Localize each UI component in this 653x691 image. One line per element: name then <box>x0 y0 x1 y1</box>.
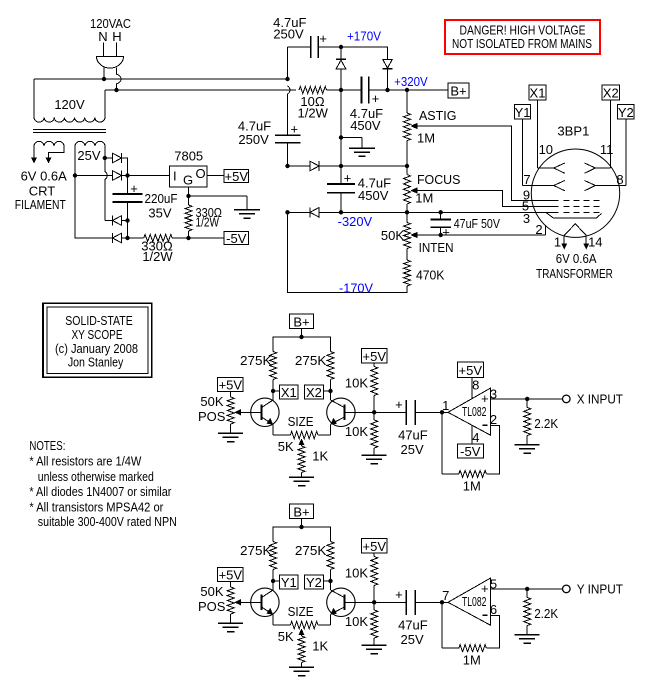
svg-text:2.2K: 2.2K <box>534 606 558 621</box>
resistor 330ohm 1/2W horizontal <box>144 235 173 242</box>
capacitor 47uF 25V (Y amp) <box>406 590 415 615</box>
svg-text:275K: 275K <box>295 353 327 368</box>
label POS <box>198 409 226 424</box>
label + (47uF) <box>395 587 403 602</box>
potentiometer FOCUS 1M <box>404 166 411 212</box>
label pin 10 <box>539 142 553 157</box>
label Y INPUT <box>577 582 623 597</box>
resistor 1M feedback (Y amp) <box>459 645 487 652</box>
wire collector supply rail <box>273 337 330 352</box>
terminal box Y2 (CRT) <box>618 105 634 120</box>
svg-text:X2: X2 <box>306 385 322 400</box>
svg-text:1/2W: 1/2W <box>196 215 220 230</box>
terminal box B+ (supply) <box>448 83 469 99</box>
svg-text:SIZE: SIZE <box>288 604 314 619</box>
svg-text:450V: 450V <box>350 118 381 133</box>
terminal box Y2 <box>305 575 324 590</box>
label pin 1 <box>442 398 449 413</box>
svg-text:INTEN: INTEN <box>419 240 454 255</box>
svg-text:B+: B+ <box>293 314 309 329</box>
svg-text:1/2W: 1/2W <box>298 106 329 121</box>
wire X2 to plate pin11 <box>595 100 610 168</box>
potentiometer 50K POS (Y amp) <box>227 581 234 623</box>
label 2.2K <box>534 606 558 621</box>
wire op-amp output <box>490 588 562 590</box>
svg-text:+: + <box>130 181 138 196</box>
wire filament lead left with arrow <box>31 146 37 164</box>
wire stub to Y1 box <box>273 580 279 582</box>
label 5K <box>278 629 294 644</box>
svg-text:N: N <box>98 29 107 44</box>
label pin 6 <box>490 602 497 617</box>
wire divider to coupling cap <box>374 601 406 603</box>
wire 330 to -5V <box>172 237 224 239</box>
ground (1K) <box>289 667 314 676</box>
svg-text:10K: 10K <box>345 614 368 629</box>
svg-text:275K: 275K <box>240 543 272 558</box>
node 7805 ground junction <box>186 194 190 198</box>
Y deflection plate left <box>554 181 565 191</box>
label pin 7 <box>523 172 530 187</box>
svg-text:120VAC: 120VAC <box>90 16 131 31</box>
label FOCUS <box>417 172 461 187</box>
terminal box +5V (op-amp) <box>457 362 483 378</box>
label 50K (INTEN) <box>381 228 404 243</box>
svg-text:Jon Stanley: Jon Stanley <box>68 354 124 369</box>
svg-text:I: I <box>173 168 177 183</box>
label 275K right <box>295 543 327 558</box>
wire plug-H with hop over AC1 <box>117 67 122 90</box>
wire stub from Y2 box <box>323 580 330 582</box>
svg-text:1: 1 <box>442 398 449 413</box>
label -170V <box>339 280 373 295</box>
label 50K (POS) <box>200 394 223 409</box>
diode D7 <box>310 161 319 171</box>
label 6V 0.6A (heater) <box>556 251 597 266</box>
label + (47uF) <box>395 397 403 412</box>
resistor 470K <box>404 249 411 287</box>
label 470K <box>416 267 445 282</box>
resistor 10K lower (Y amp) <box>371 602 378 645</box>
wire D2 cathode to 7805 input <box>122 175 170 177</box>
label + (C3) <box>372 91 380 106</box>
resistor 275K right (Y amp) <box>327 542 334 582</box>
resistor 10K upper (X amp) <box>371 363 378 413</box>
svg-text:10: 10 <box>539 142 553 157</box>
svg-text:-5V: -5V <box>226 231 247 246</box>
wire emitters to SIZE pot <box>273 434 330 436</box>
diode D2 <box>113 171 122 181</box>
ground (2.2K) <box>515 445 540 454</box>
label 3BP1 <box>557 123 589 138</box>
svg-text:25V: 25V <box>77 148 100 163</box>
label 275K left <box>240 543 272 558</box>
node op-amp input junction <box>440 600 444 604</box>
ground (10K divider) <box>362 645 387 654</box>
wire node to FOCUS top <box>341 164 409 168</box>
svg-text:SOLID-STATE: SOLID-STATE <box>65 313 133 328</box>
label X INPUT <box>577 392 623 407</box>
node 25V right junction <box>103 156 107 160</box>
ground (HV filter) <box>349 148 375 156</box>
label +170V <box>347 28 381 43</box>
label 5K <box>278 439 294 454</box>
wire 7805 output to +5V <box>207 175 224 177</box>
svg-text:35V: 35V <box>148 206 171 221</box>
label 4.7uF (C3) <box>350 106 383 121</box>
label + input <box>481 391 489 406</box>
capacitor 47uF 50V <box>430 212 451 235</box>
svg-text:+: + <box>319 31 327 46</box>
node AC1 junction <box>102 77 106 81</box>
label 50K (POS) <box>200 584 223 599</box>
svg-text:B+: B+ <box>450 84 466 99</box>
label 25V <box>77 148 100 163</box>
svg-text:3BP1: 3BP1 <box>557 123 589 138</box>
label H <box>112 29 121 44</box>
label 4.7uF (C4) <box>358 176 391 191</box>
label 47uF <box>398 617 428 632</box>
svg-text:2.2K: 2.2K <box>534 416 558 431</box>
wire D1 cathode to raw DC node <box>122 158 128 176</box>
resistor 10ohm 1/2W <box>299 87 326 94</box>
label 10K lower <box>345 424 368 439</box>
terminal box +5V (POS X) <box>218 378 244 393</box>
terminal box B+ (X amp) <box>290 314 314 329</box>
svg-text:1: 1 <box>554 235 561 250</box>
label 330ohm horiz <box>141 239 173 254</box>
wire Y1 to plate pin7 <box>523 119 554 185</box>
svg-text:SIZE: SIZE <box>288 414 314 429</box>
wire 25V winding right lead down <box>104 146 106 172</box>
regulator U2 7805 box <box>169 166 207 187</box>
svg-text:+: + <box>395 587 403 602</box>
node output junction <box>525 587 529 591</box>
terminal box X1 <box>279 385 298 400</box>
label pin 2 <box>535 222 542 237</box>
label pin 8 <box>616 172 623 187</box>
svg-text:+170V: +170V <box>347 28 381 43</box>
svg-text:10K: 10K <box>345 566 368 581</box>
svg-text:X1: X1 <box>281 385 297 400</box>
node collector X1 junction <box>271 389 275 393</box>
node B+ rail junction <box>299 525 303 529</box>
svg-text:-320V: -320V <box>338 214 373 229</box>
svg-text:4: 4 <box>472 430 479 445</box>
transistor Q right (Y amp) <box>327 581 355 625</box>
label 47uF 50V <box>454 216 501 231</box>
CRT cathode heater <box>564 224 586 236</box>
svg-text:50K: 50K <box>381 228 404 243</box>
label pin 9 <box>523 187 530 202</box>
resistor 1M feedback (X amp) <box>459 470 487 477</box>
node 47uF bottom junction <box>439 233 443 237</box>
wire to ground (HV) <box>341 138 362 149</box>
wire divider to coupling cap <box>374 411 406 413</box>
transistor Q right (X amp) <box>327 391 355 435</box>
SIZE wiper arrow <box>298 439 304 446</box>
wire Q2 base <box>344 411 374 413</box>
transformer T1 6V filament winding <box>34 141 64 146</box>
resistor 10K upper (Y amp) <box>371 553 378 603</box>
svg-text:+5V: +5V <box>219 378 243 393</box>
svg-text:Y1: Y1 <box>281 575 297 590</box>
label 330ohm vert <box>196 205 223 220</box>
svg-text:50K: 50K <box>200 394 223 409</box>
diode D8 <box>310 207 319 217</box>
svg-text:7: 7 <box>442 588 449 603</box>
node raw -DC junction <box>125 236 129 240</box>
wire AC1 up to C1 <box>288 47 311 79</box>
ground (1K) <box>289 477 314 486</box>
label + (C4) <box>344 171 352 186</box>
wire +320 down to ASTIG pot <box>406 90 408 113</box>
svg-text:50K: 50K <box>200 584 223 599</box>
svg-text:1/2W: 1/2W <box>142 249 173 264</box>
node op-amp input junction <box>440 410 444 414</box>
node ground takeoff junction <box>339 135 343 139</box>
wire 25V winding left lead down <box>74 146 76 176</box>
capacitor C4 4.7uF 450V <box>327 166 355 212</box>
label INTEN <box>419 240 454 255</box>
svg-text:FOCUS: FOCUS <box>417 172 461 187</box>
label POS <box>198 599 226 614</box>
label SIZE <box>288 604 314 619</box>
mains plug <box>97 43 124 69</box>
node -320/INTEN junction <box>405 210 409 214</box>
wire -320 rail left segment <box>288 211 311 213</box>
resistor 330ohm 1/2W vertical <box>185 196 192 238</box>
label 120V <box>54 97 85 112</box>
label 6V 0.6A <box>21 169 68 184</box>
node Q base / divider junction <box>372 600 376 604</box>
label -320V <box>338 214 373 229</box>
wire stub to X1 box <box>273 390 279 392</box>
svg-text:-170V: -170V <box>339 280 373 295</box>
svg-text:14: 14 <box>588 235 602 250</box>
svg-text:1M: 1M <box>415 191 433 206</box>
svg-text:POS: POS <box>198 599 226 614</box>
op-amp U1 TL082 (Y half) <box>448 578 490 625</box>
wire op-amp pin 4 to -5V <box>471 425 473 444</box>
wire POS wiper to Q base <box>234 409 261 415</box>
svg-text:TL082: TL082 <box>462 404 487 419</box>
svg-text:25V: 25V <box>401 632 424 647</box>
danger warning box <box>445 20 600 54</box>
svg-text:+5V: +5V <box>219 568 243 583</box>
label pin 4 <box>472 430 479 445</box>
wire cap to op-amp input <box>415 601 448 603</box>
svg-text:unless otherwise marked: unless otherwise marked <box>38 469 154 484</box>
resistor 2.2K (X amp) <box>524 399 531 445</box>
node AC1-C1 junction <box>285 77 289 81</box>
label 10ohm <box>300 94 324 109</box>
svg-text:XY SCOPE: XY SCOPE <box>72 327 123 342</box>
node AC2 junction <box>114 88 118 92</box>
potentiometer SIZE 5K (Y amp) <box>290 622 318 629</box>
ground (10K divider) <box>362 455 387 464</box>
wire FOCUS wiper to CRT pin5 <box>411 187 559 206</box>
svg-text:POS: POS <box>198 409 226 424</box>
svg-text:+: + <box>442 225 450 240</box>
label pin 8 <box>472 378 479 393</box>
label 47uF <box>398 427 428 442</box>
label 25V <box>401 442 424 457</box>
label 10K upper <box>345 376 368 391</box>
label N <box>98 29 107 44</box>
label + input <box>481 581 489 596</box>
wire heater pin 14 with arrow <box>583 236 589 250</box>
diode D3 <box>113 216 122 226</box>
label 4.7uF (C1) <box>273 15 306 30</box>
diode D5 <box>336 47 346 90</box>
terminal box X2 (CRT) <box>602 85 619 101</box>
label + (C1) <box>319 31 327 46</box>
label 250V (C2) <box>238 132 269 147</box>
wire AC rail 2 (hot) left <box>105 90 296 118</box>
svg-text:450V: 450V <box>358 188 389 203</box>
SIZE wiper arrow <box>298 629 304 636</box>
svg-text:X2: X2 <box>603 86 619 101</box>
transistor Q left (X amp) <box>251 391 279 435</box>
label 450V (C3) <box>350 118 381 133</box>
label 1/2W vert <box>196 215 220 230</box>
svg-text:X INPUT: X INPUT <box>577 392 623 407</box>
wire B+ stub <box>301 328 303 337</box>
CRT V1 envelope <box>531 149 619 237</box>
svg-text:* All diodes 1N4007 or similar: * All diodes 1N4007 or similar <box>29 484 172 499</box>
wire POS wiper to Q base <box>234 599 261 605</box>
svg-text:10K: 10K <box>345 376 368 391</box>
label + (47uF50V) <box>442 225 450 240</box>
wire D4 to resistor 330 <box>122 237 144 239</box>
node C4 bottom junction <box>339 210 343 214</box>
node -320 junction A <box>285 210 289 214</box>
label 1/2W horiz <box>142 249 173 264</box>
svg-text:275K: 275K <box>295 543 327 558</box>
label +320V <box>394 74 428 89</box>
terminal box +5V (POS Y) <box>218 568 244 583</box>
CRT grid electrode dashes <box>564 200 600 212</box>
node -5V junction <box>186 236 190 240</box>
svg-text:+320V: +320V <box>394 74 428 89</box>
label + (220uF) <box>130 181 138 196</box>
label 7805 <box>174 148 203 163</box>
label + (C2) <box>291 121 299 136</box>
wire emitters to SIZE pot <box>273 624 330 626</box>
wire D8 to C4 bottom <box>319 211 341 213</box>
wire 25V left to D4 <box>75 176 113 239</box>
label 120VAC <box>90 16 131 31</box>
terminal box X2 <box>305 385 324 400</box>
label pin 3 <box>490 387 497 402</box>
label - input <box>482 424 487 426</box>
wire collector supply rail <box>273 527 330 542</box>
label pin 5 <box>522 199 529 214</box>
wire op-amp pin 8 to +5V <box>471 378 473 399</box>
label TRANSFORMER <box>536 266 613 281</box>
wire cap to op-amp input <box>415 411 448 413</box>
svg-text:470K: 470K <box>416 267 445 282</box>
svg-text:+: + <box>395 397 403 412</box>
svg-text:suitable 300-400V rated NPN: suitable 300-400V rated NPN <box>38 514 177 529</box>
transformer T1 primary winding <box>34 118 105 123</box>
svg-text:Y INPUT: Y INPUT <box>577 582 623 597</box>
node 47uF-50V top junction <box>439 210 443 214</box>
svg-text:2: 2 <box>535 222 542 237</box>
wire heater pin 1 with arrow <box>561 236 567 250</box>
capacitor C2 4.7uF 250V <box>275 94 301 166</box>
node Q base / divider junction <box>372 410 376 414</box>
svg-text:1M: 1M <box>463 653 481 668</box>
label 275K right <box>295 353 327 368</box>
svg-text:TRANSFORMER: TRANSFORMER <box>536 266 613 281</box>
node D3 junction <box>125 218 129 222</box>
resistor 2.2K (Y amp) <box>524 589 531 635</box>
label pin 5 <box>490 577 497 592</box>
ground (2.2K) <box>515 635 540 644</box>
transformer T1 25V winding <box>75 141 105 146</box>
wire feedback loop <box>442 602 499 648</box>
label 250V (C1) <box>273 27 304 42</box>
svg-text:+: + <box>344 171 352 186</box>
wire 25V lead to D3 <box>105 220 113 222</box>
capacitor 47uF 25V (X amp) <box>406 400 415 425</box>
ground (POS pot) <box>218 433 243 442</box>
svg-text:7805: 7805 <box>174 148 203 163</box>
svg-text:8: 8 <box>472 378 479 393</box>
vertical wire node B down <box>340 90 342 166</box>
wire C3 to +320 node <box>369 89 388 91</box>
node +320V junction 2 <box>405 88 409 92</box>
svg-text:5K: 5K <box>278 629 294 644</box>
svg-text:6V 0.6A: 6V 0.6A <box>21 169 68 184</box>
wire 7805 ground pin <box>188 187 190 196</box>
svg-text:47uF: 47uF <box>398 617 428 632</box>
svg-text:250V: 250V <box>238 132 269 147</box>
label ASTIG <box>419 108 457 123</box>
label SIZE <box>288 414 314 429</box>
label 4.7uF (C2) <box>238 119 271 134</box>
svg-text:NOT ISOLATED FROM MAINS: NOT ISOLATED FROM MAINS <box>452 36 592 51</box>
Y deflection plate right <box>585 181 596 191</box>
svg-text:8: 8 <box>616 172 623 187</box>
wire Y2 to plate pin8 <box>595 119 625 185</box>
node collector X2 junction <box>328 389 332 393</box>
resistor 10K lower (X amp) <box>371 412 378 455</box>
diode D1 <box>113 153 122 163</box>
title box <box>43 303 152 377</box>
label 2.2K <box>534 416 558 431</box>
terminal box -5V (op-amp) <box>457 444 483 459</box>
svg-text:* All transistors MPSA42 or: * All transistors MPSA42 or <box>29 499 164 514</box>
terminal box X1 (CRT) <box>529 85 546 101</box>
svg-text:47uF 50V: 47uF 50V <box>454 216 501 231</box>
wire 10ohm to node B <box>327 89 342 91</box>
wire C2 to D7 <box>288 165 311 167</box>
svg-text:H: H <box>112 29 121 44</box>
wire filament lead right with arrow <box>46 146 65 164</box>
label CRT <box>29 184 56 199</box>
svg-text:Y2: Y2 <box>306 575 322 590</box>
terminal X INPUT <box>563 395 571 403</box>
label pin 3 <box>523 211 530 226</box>
wire 470K to -170V rail <box>288 212 408 292</box>
label pin 7 <box>442 588 449 603</box>
capacitor C3 4.7uF 450V (series) <box>362 77 369 104</box>
resistor 275K right (X amp) <box>327 352 334 392</box>
label 450V (C4) <box>358 188 389 203</box>
